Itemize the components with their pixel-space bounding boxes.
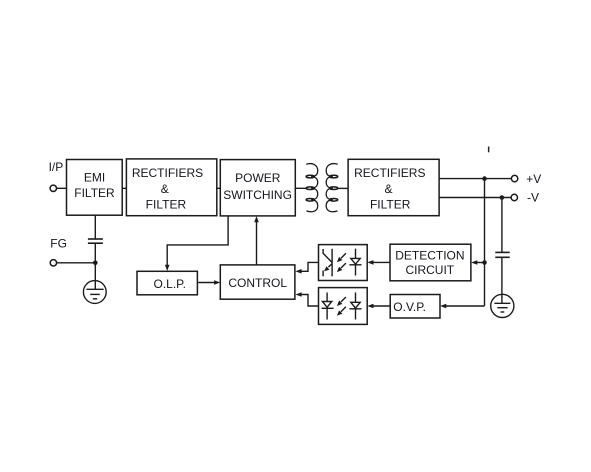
arrowhead down into OLP [165, 265, 170, 271]
opto1 LED [349, 249, 361, 276]
wire sense bottom to OVP [445, 305, 485, 307]
junction dot FG [93, 261, 98, 266]
wire OVP to opto2 [372, 305, 390, 307]
svg-text:RECTIFIERS: RECTIFIERS [354, 166, 425, 180]
svg-text:-V: -V [527, 191, 539, 205]
svg-text:&: & [161, 182, 169, 196]
box optocoupler 2 [319, 288, 368, 325]
svg-text:I/P: I/P [49, 160, 64, 174]
capacitor output [495, 252, 509, 257]
box RECTIFIERS & FILTER secondary [348, 159, 439, 215]
wire input main horizontal [57, 187, 307, 189]
box CONTROL [220, 265, 295, 299]
box DETECTION CIRCUIT [390, 244, 471, 281]
svg-text:CIRCUIT: CIRCUIT [405, 263, 454, 277]
box EMI FILTER [67, 160, 123, 216]
opto2 LED [349, 293, 361, 320]
box O.L.P. [137, 271, 197, 295]
opto1 phototransistor [323, 249, 332, 276]
opto1 light arrows [341, 253, 346, 268]
transformer T1 secondary winding [326, 164, 338, 212]
wire CONTROL to PS vertical [256, 221, 258, 265]
arrowhead left into DETECTION [471, 260, 477, 265]
wire transformer secondary to rectifiers2 [338, 187, 349, 189]
junction dot +V sense [482, 176, 487, 181]
svg-text:FG: FG [50, 237, 67, 251]
arrowhead up into POWER SWITCHING [254, 216, 259, 222]
capacitor FG line [88, 239, 103, 243]
terminal -V [511, 191, 539, 205]
ground right [491, 294, 514, 317]
arrowhead left into OVP [440, 304, 446, 309]
opto2 light arrows [341, 297, 346, 312]
wire +V output [439, 178, 511, 180]
terminal +V [511, 172, 541, 186]
terminal I/P [49, 160, 64, 191]
transformer T1 primary winding [306, 164, 318, 212]
wire FG horizontal [57, 262, 96, 264]
svg-text:&: & [384, 182, 392, 196]
wire +V sense vertical [484, 179, 486, 306]
opto2 photodiode [322, 293, 334, 320]
wire EMI bottom to cap [94, 215, 96, 239]
ground left [83, 281, 106, 304]
svg-text:FILTER: FILTER [146, 198, 187, 212]
svg-text:DETECTION: DETECTION [395, 249, 464, 263]
svg-text:O.L.P.: O.L.P. [154, 277, 186, 291]
svg-text:SWITCHING: SWITCHING [223, 188, 292, 202]
terminal FG [50, 237, 67, 266]
svg-text:+V: +V [526, 172, 541, 186]
arrowhead left into CONTROL from opto1 [295, 269, 301, 274]
svg-text:O.V.P.: O.V.P. [393, 300, 426, 314]
box O.V.P. [390, 295, 440, 319]
arrowhead left into opto1 [367, 260, 373, 265]
wire cap to left ground [94, 243, 96, 289]
arrowhead left into opto2 [367, 304, 373, 309]
svg-text:EMI: EMI [84, 171, 105, 185]
box POWER SWITCHING [220, 160, 295, 216]
wire opto2 to CONTROL bend [300, 295, 318, 307]
junction dot detection [482, 260, 487, 265]
junction dot -V [500, 195, 505, 200]
svg-text:FILTER: FILTER [74, 186, 115, 200]
svg-text:CONTROL: CONTROL [228, 276, 287, 290]
svg-text:FILTER: FILTER [370, 198, 411, 212]
wire OLP to CONTROL [198, 282, 215, 284]
arrowhead right into CONTROL [214, 280, 220, 285]
wire -V output [439, 197, 511, 199]
wire opto1 to CONTROL bend [300, 262, 318, 271]
box optocoupler 1 [319, 245, 368, 281]
wire PS bottom bend to OLP [167, 216, 228, 266]
wire DETECTION to opto1 [372, 261, 390, 263]
box RECTIFIERS & FILTER primary [126, 159, 216, 216]
svg-text:POWER: POWER [235, 171, 281, 185]
wire -V to cap vertical [501, 198, 503, 253]
wire sense to DETECTION [476, 262, 485, 264]
stray tick mark [488, 147, 490, 153]
arrowhead left into CONTROL from opto2 [295, 292, 301, 297]
svg-text:RECTIFIERS: RECTIFIERS [132, 166, 203, 180]
wire cap to right ground [501, 257, 503, 303]
